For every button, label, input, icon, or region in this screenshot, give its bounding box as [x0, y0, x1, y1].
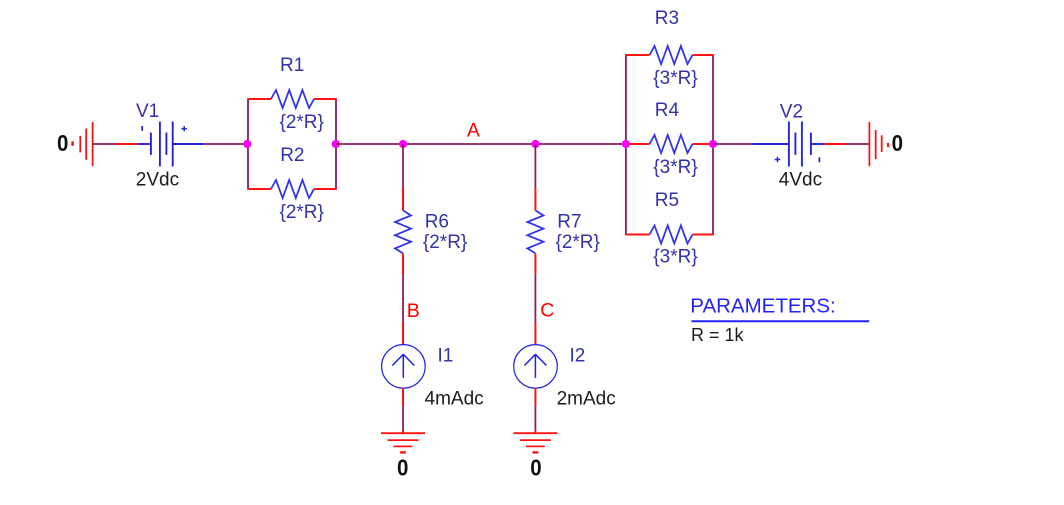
- resistor R3 pin 2: [693, 54, 714, 56]
- resistor R3: [650, 46, 693, 64]
- wire right vertical of R3/R4/R5 loop: [712, 55, 714, 235]
- wire R7 to I2 (net C): [534, 274, 536, 322]
- svg-text:2Vdc: 2Vdc: [136, 169, 179, 190]
- svg-text:{3*R}: {3*R}: [653, 157, 697, 178]
- resistor R2 pin 1: [247, 188, 271, 190]
- ground 0 (below I1) pin: [402, 431, 404, 433]
- resistor R2 pin 2: [314, 188, 337, 190]
- svg-text:C: C: [540, 300, 554, 322]
- battery V1: [138, 122, 204, 167]
- svg-text:R4: R4: [655, 100, 680, 121]
- resistor R4 pin 2: [693, 143, 714, 145]
- battery V2 plus mark: [775, 157, 780, 162]
- current source I2 pin 1: [534, 323, 536, 346]
- svg-text:{2*R}: {2*R}: [280, 202, 324, 223]
- svg-text:R5: R5: [655, 190, 679, 211]
- svg-text:{2*R}: {2*R}: [280, 112, 324, 133]
- wire V2 to ground-right: [846, 143, 870, 145]
- resistor R5 pin 2: [693, 234, 714, 236]
- wire node4 to node5: [535, 143, 626, 145]
- ground 0 (left): [73, 122, 93, 166]
- wire node3 to node4 (net A): [403, 143, 535, 145]
- resistor R3 pin 1: [625, 54, 649, 56]
- wire left vertical of R1/R2 loop: [247, 99, 249, 189]
- current source I1 pin 1: [402, 323, 404, 346]
- svg-text:V2: V2: [780, 102, 803, 123]
- svg-text:I1: I1: [438, 346, 454, 367]
- svg-text:A: A: [467, 120, 480, 142]
- svg-text:{2*R}: {2*R}: [423, 232, 467, 253]
- resistor R7 pin 2: [534, 253, 536, 274]
- svg-text:{3*R}: {3*R}: [653, 68, 697, 89]
- PARAMETERS underline: [691, 320, 869, 322]
- wire V1 to node 1: [203, 143, 248, 145]
- svg-text:B: B: [407, 300, 420, 322]
- resistor R1: [271, 90, 314, 108]
- svg-text:0: 0: [57, 130, 68, 156]
- wire right vertical of R1/R2 loop: [335, 99, 337, 189]
- resistor R5: [650, 226, 693, 244]
- node dot at R1R2 right junction: [332, 140, 340, 148]
- svg-text:R6: R6: [425, 211, 449, 232]
- resistor R7 pin 1: [534, 188, 536, 211]
- resistor R4: [650, 135, 693, 153]
- resistor R1 pin 1: [247, 98, 271, 100]
- current source I1 pin 2: [402, 388, 404, 406]
- svg-text:R7: R7: [557, 211, 581, 232]
- node dot at V1/R1R2 junction: [243, 140, 251, 148]
- svg-text:{2*R}: {2*R}: [556, 232, 600, 253]
- wire I1 to ground: [402, 406, 404, 431]
- ground 0 (below I2) pin: [534, 431, 536, 433]
- ground 0 (below I1): [381, 433, 425, 452]
- svg-text:0: 0: [892, 130, 903, 156]
- wire node6 to V2: [713, 143, 752, 145]
- wire R6 to I1 (net B): [402, 274, 404, 322]
- battery V1 plus mark: [182, 126, 187, 131]
- svg-text:R2: R2: [280, 145, 304, 166]
- wire node2 to node3: [336, 143, 403, 145]
- resistor R6 pin 2: [402, 253, 404, 274]
- node dot at R6 branch: [399, 140, 407, 148]
- svg-text:R = 1k: R = 1k: [691, 325, 745, 345]
- battery V2: [752, 122, 824, 167]
- wire I2 to ground: [534, 406, 536, 431]
- ground 0 (right): [869, 122, 888, 166]
- battery V1 pin 1 (minus, red): [117, 143, 138, 145]
- battery V1 minus mark: [141, 126, 143, 131]
- battery V2 pin 2 (red): [824, 143, 846, 145]
- wire node4 down to R7: [534, 144, 536, 188]
- resistor R5 pin 1: [625, 234, 649, 236]
- svg-text:2mAdc: 2mAdc: [557, 388, 616, 409]
- resistor R1 pin 2: [314, 98, 337, 100]
- svg-text:V1: V1: [136, 101, 159, 122]
- svg-text:R3: R3: [655, 8, 679, 29]
- resistor R2: [271, 180, 314, 198]
- svg-text:0: 0: [397, 455, 408, 481]
- resistor R7: [527, 210, 543, 253]
- current source I2 pin 2: [534, 388, 536, 406]
- ground 0 (below I2): [513, 433, 557, 452]
- node dot at R3R4R5 left junction: [622, 140, 630, 148]
- svg-text:0: 0: [530, 455, 541, 481]
- svg-text:R1: R1: [280, 55, 304, 76]
- node dot at R7 branch: [531, 140, 539, 148]
- current source I2: [514, 345, 558, 389]
- svg-text:I2: I2: [570, 346, 586, 367]
- wire node3 down to R6: [402, 144, 404, 188]
- resistor R6: [395, 210, 411, 253]
- battery V2 minus mark: [818, 157, 820, 162]
- svg-text:4mAdc: 4mAdc: [425, 388, 484, 409]
- svg-text:4Vdc: 4Vdc: [779, 169, 822, 190]
- resistor R6 pin 1: [402, 188, 404, 211]
- current source I1: [382, 345, 426, 389]
- wire ground-left to V1: [93, 143, 117, 145]
- svg-text:PARAMETERS:: PARAMETERS:: [690, 295, 835, 318]
- svg-text:{3*R}: {3*R}: [653, 247, 697, 268]
- wire left vertical of R3/R4/R5 loop: [625, 55, 627, 235]
- node dot at R3R4R5 right junction: [709, 140, 717, 148]
- resistor R4 pin 1: [626, 143, 650, 145]
